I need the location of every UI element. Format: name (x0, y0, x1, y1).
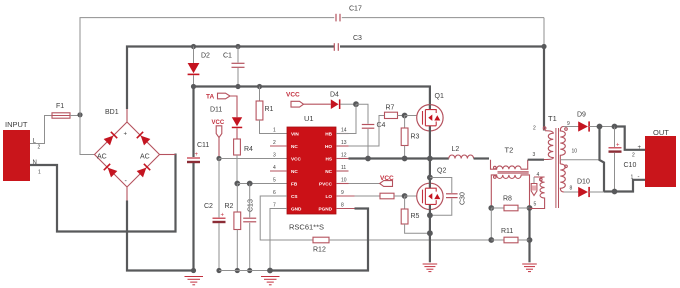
svg-text:BD1: BD1 (105, 109, 119, 116)
svg-text:HO: HO (325, 144, 332, 149)
svg-text:C17: C17 (349, 6, 362, 13)
svg-text:VCC: VCC (291, 156, 302, 161)
svg-text:C13: C13 (248, 199, 255, 212)
pin 12 (336, 158, 349, 160)
wire CS pin6 to R12 (260, 196, 313, 240)
svg-text:R5: R5 (411, 213, 420, 220)
svg-text:+: + (638, 145, 642, 151)
svg-text:6: 6 (273, 190, 276, 196)
ground symbol T1 (522, 264, 537, 272)
svg-text:1: 1 (273, 128, 276, 134)
wire bridge minus down to ground rail (126, 187, 128, 201)
diode D9 (577, 112, 615, 132)
node C2 ground (216, 268, 221, 273)
flag VCC (D4 feed) (286, 92, 331, 108)
inductor L2 (449, 146, 489, 159)
svg-text:Q1: Q1 (435, 93, 444, 100)
resistor R8 (491, 196, 529, 211)
node D2 top (191, 44, 196, 49)
node HB boot (353, 101, 359, 107)
capacitor C30 snubber (430, 178, 467, 216)
svg-text:F1: F1 (56, 103, 64, 110)
node R2 ground (235, 268, 240, 273)
node R8 left (488, 205, 494, 211)
flag VCC (PVCC pin10) (349, 175, 395, 186)
node C3-C17 junction (541, 44, 546, 49)
ground symbol center (261, 277, 280, 285)
node R3 on HS rail (402, 156, 408, 162)
svg-text:8: 8 (341, 203, 344, 209)
node FB C13 (247, 181, 253, 187)
svg-text:C1: C1 (223, 53, 232, 60)
svg-text:C10: C10 (624, 162, 637, 169)
svg-text:NC: NC (291, 169, 298, 174)
svg-text:+: + (124, 132, 128, 138)
transistor Q2 (417, 159, 447, 234)
svg-text:R4: R4 (244, 146, 253, 153)
node VCC-C2 (216, 156, 221, 161)
svg-text:12: 12 (341, 153, 347, 159)
wire Q2 source to ground (429, 233, 431, 262)
flag VCC (pin3 supply) (212, 120, 225, 159)
pin 4 (270, 170, 287, 172)
wire VCC node to pin3 (219, 158, 287, 160)
svg-text:1: 1 (631, 175, 634, 181)
svg-text:FB: FB (291, 181, 298, 186)
svg-text:AC: AC (140, 154, 150, 161)
resistor R1 (256, 87, 287, 134)
node Q2 source (427, 212, 433, 218)
capacitor C17 (top line) (336, 6, 544, 22)
svg-text:5: 5 (534, 202, 537, 208)
bridge diode top-right (136, 131, 150, 145)
wire HS rail (349, 157, 449, 159)
bridge rectifier BD1 (95, 109, 160, 187)
resistor R2 (225, 184, 241, 271)
capacitor C2 (204, 159, 226, 271)
svg-text:3: 3 (533, 152, 536, 158)
svg-text:R11: R11 (501, 228, 513, 235)
wire ground rail mid (219, 270, 270, 272)
diode D4 (330, 92, 356, 110)
node C13 ground (247, 268, 252, 273)
diode D10 (577, 179, 604, 198)
node R11 left (488, 237, 494, 243)
op-amp U1 RSC61**S controller (270, 114, 355, 232)
svg-text:C2: C2 (204, 203, 213, 210)
diode D2 (188, 47, 210, 87)
T2 primary winding (491, 160, 528, 170)
node C4 on HS rail (365, 156, 371, 162)
node FB divider (234, 181, 240, 187)
wire L down to bridge left (80, 115, 95, 155)
resistor R4 (234, 139, 253, 184)
svg-text:T2: T2 (505, 146, 514, 155)
svg-text:2: 2 (632, 153, 635, 159)
node D9 out (597, 124, 603, 130)
svg-text:U1: U1 (304, 114, 314, 123)
wire T2 to T1 primary (528, 159, 544, 161)
svg-text:C11: C11 (197, 142, 209, 149)
svg-text:R1: R1 (265, 106, 274, 113)
wire N to bridge right (lower loop) (30, 154, 176, 232)
svg-text:D4: D4 (330, 92, 339, 99)
resistor R11 (491, 228, 529, 243)
pin 11 (336, 170, 349, 172)
T2 secondary winding (491, 175, 529, 208)
svg-text:2: 2 (533, 126, 536, 132)
svg-text:GND: GND (291, 206, 302, 211)
svg-text:D9: D9 (577, 112, 586, 119)
svg-text:CS: CS (291, 194, 298, 199)
wire R8 right down to R11 (528, 208, 530, 240)
svg-text:VIN: VIN (291, 131, 299, 136)
node C1 bottom / rail2 (235, 84, 240, 89)
wire R8 left down to R11 (490, 208, 492, 240)
capacitor C1 (223, 47, 245, 87)
svg-text:7: 7 (273, 203, 276, 209)
wire HB node to pin14 (336, 104, 356, 133)
resistor R12 (313, 237, 491, 253)
svg-text:L2: L2 (452, 146, 460, 153)
capacitor C11 (187, 87, 209, 271)
pin 14 (336, 133, 349, 135)
wire GND pin7 down (270, 209, 287, 271)
svg-text:D10: D10 (577, 179, 590, 186)
ground symbol left (185, 277, 204, 285)
connector J-OUT "OUT" (631, 128, 677, 187)
resistor R5 (401, 196, 430, 233)
node C1 top (235, 44, 240, 49)
bridge diode bottom-right (137, 163, 151, 177)
svg-text:INPUT: INPUT (5, 120, 28, 129)
svg-text:8: 8 (570, 186, 573, 192)
wire bridge plus up to top rail (126, 109, 128, 122)
transformer T2 (491, 146, 530, 209)
wire down to T1 primary (543, 47, 545, 131)
resistor R3 (401, 116, 419, 159)
wire pin9 to D9 (564, 126, 579, 128)
T2 core (498, 171, 529, 173)
node Q1 gate (402, 113, 408, 119)
wire R11 right to ground (528, 240, 530, 262)
resistor R7 (385, 105, 405, 119)
pin 9 (336, 195, 355, 197)
node C10 top (612, 124, 618, 130)
transformer T1 (530, 114, 578, 209)
svg-text:9: 9 (341, 190, 344, 196)
flag TA aux (pin 4) (531, 177, 537, 196)
pin 8 (336, 208, 355, 210)
svg-text:R7: R7 (386, 105, 395, 112)
wire fuse to node (70, 115, 80, 117)
node Q2 drain (427, 175, 433, 181)
wire PGND pin8 loop (272, 209, 368, 271)
svg-text:11: 11 (341, 165, 346, 171)
svg-text:R3: R3 (411, 134, 420, 141)
svg-text:13: 13 (341, 140, 347, 146)
bridge diode bottom-left (103, 163, 117, 177)
node R1 top (257, 84, 262, 89)
svg-text:4: 4 (273, 165, 276, 171)
diode D11 (210, 107, 242, 140)
wire gate to Q2 (405, 195, 417, 197)
wire gate to Q1 (405, 115, 417, 117)
svg-text:1: 1 (38, 170, 41, 176)
capacitor C13 (243, 184, 256, 271)
svg-text:AC: AC (97, 154, 107, 161)
svg-text:R2: R2 (225, 203, 234, 210)
transistor Q1 (417, 93, 444, 159)
svg-text:T1: T1 (548, 114, 557, 123)
svg-text:NC: NC (325, 169, 332, 174)
wire FB net (237, 183, 287, 185)
svg-text:C3: C3 (353, 35, 362, 42)
pin 2 (270, 145, 287, 147)
svg-text:10: 10 (572, 149, 578, 155)
wire HO pin13 to R7 (349, 116, 385, 147)
wire L up to C17 line (80, 18, 334, 115)
svg-text:PVCC: PVCC (319, 181, 333, 186)
wire center tap (560, 159, 599, 161)
svg-text:3: 3 (273, 153, 276, 159)
connector J-IN "INPUT" (3, 120, 41, 181)
wire D10 out to C10 (604, 190, 615, 192)
capacitor C3 (second line) (334, 35, 544, 51)
node pin7 ground (267, 268, 273, 274)
svg-text:LO: LO (325, 194, 332, 199)
svg-text:14: 14 (341, 128, 347, 134)
svg-text:HB: HB (325, 131, 332, 136)
wire pin8 to D10 (564, 191, 579, 193)
fuse F1 (52, 103, 70, 118)
ground symbol Q2 (423, 264, 438, 272)
bridge diode top-left (104, 131, 118, 145)
node L junction (77, 112, 82, 117)
flag TA (206, 93, 237, 117)
node R8 right (527, 205, 533, 211)
node ground rail C11 (191, 268, 196, 273)
capacitor C10 (609, 127, 637, 192)
node R11 right (527, 237, 533, 243)
svg-text:OUT: OUT (653, 128, 669, 137)
wire D9 node down (jog) (600, 127, 605, 192)
svg-text:PGND: PGND (318, 206, 332, 211)
svg-text:10: 10 (341, 178, 347, 184)
node HS Q1 source / Q2 drain (427, 156, 433, 162)
svg-text:HS: HS (325, 156, 332, 161)
wire out plus (615, 127, 646, 150)
svg-text:TA: TA (206, 94, 214, 101)
resistor Q2 gate (LO pin9) (355, 193, 405, 199)
svg-text:-: - (638, 175, 640, 181)
wire out minus (615, 180, 646, 192)
svg-text:R8: R8 (503, 196, 512, 203)
wire C17 line down to C3 node (543, 18, 545, 47)
svg-text:VCC: VCC (286, 92, 300, 99)
capacitor C4 (356, 104, 386, 158)
svg-text:5: 5 (273, 178, 276, 184)
svg-text:C30: C30 (460, 192, 467, 205)
wire rail2 (rectified bus to Q1 drain) (194, 87, 430, 105)
svg-text:VCC: VCC (212, 120, 225, 126)
svg-text:2: 2 (273, 140, 276, 146)
wire L line to fuse (30, 116, 52, 144)
svg-text:Q2: Q2 (437, 168, 446, 175)
svg-text:D11: D11 (210, 107, 222, 114)
node Q2 gate (402, 193, 408, 199)
svg-text:RSC61**S: RSC61**S (289, 223, 324, 232)
svg-text:C4: C4 (377, 122, 386, 129)
svg-text:2: 2 (38, 145, 41, 151)
node D2 bottom / rail2 (191, 84, 196, 89)
node C10 bottom (612, 189, 618, 195)
pin 10 (336, 183, 349, 185)
node R5 return (427, 230, 433, 236)
svg-text:NC: NC (291, 144, 298, 149)
svg-text:D2: D2 (201, 53, 210, 60)
pin 13 (336, 145, 349, 147)
svg-text:+: + (195, 152, 199, 158)
T1 core (555, 128, 557, 208)
svg-text:R12: R12 (313, 247, 326, 254)
